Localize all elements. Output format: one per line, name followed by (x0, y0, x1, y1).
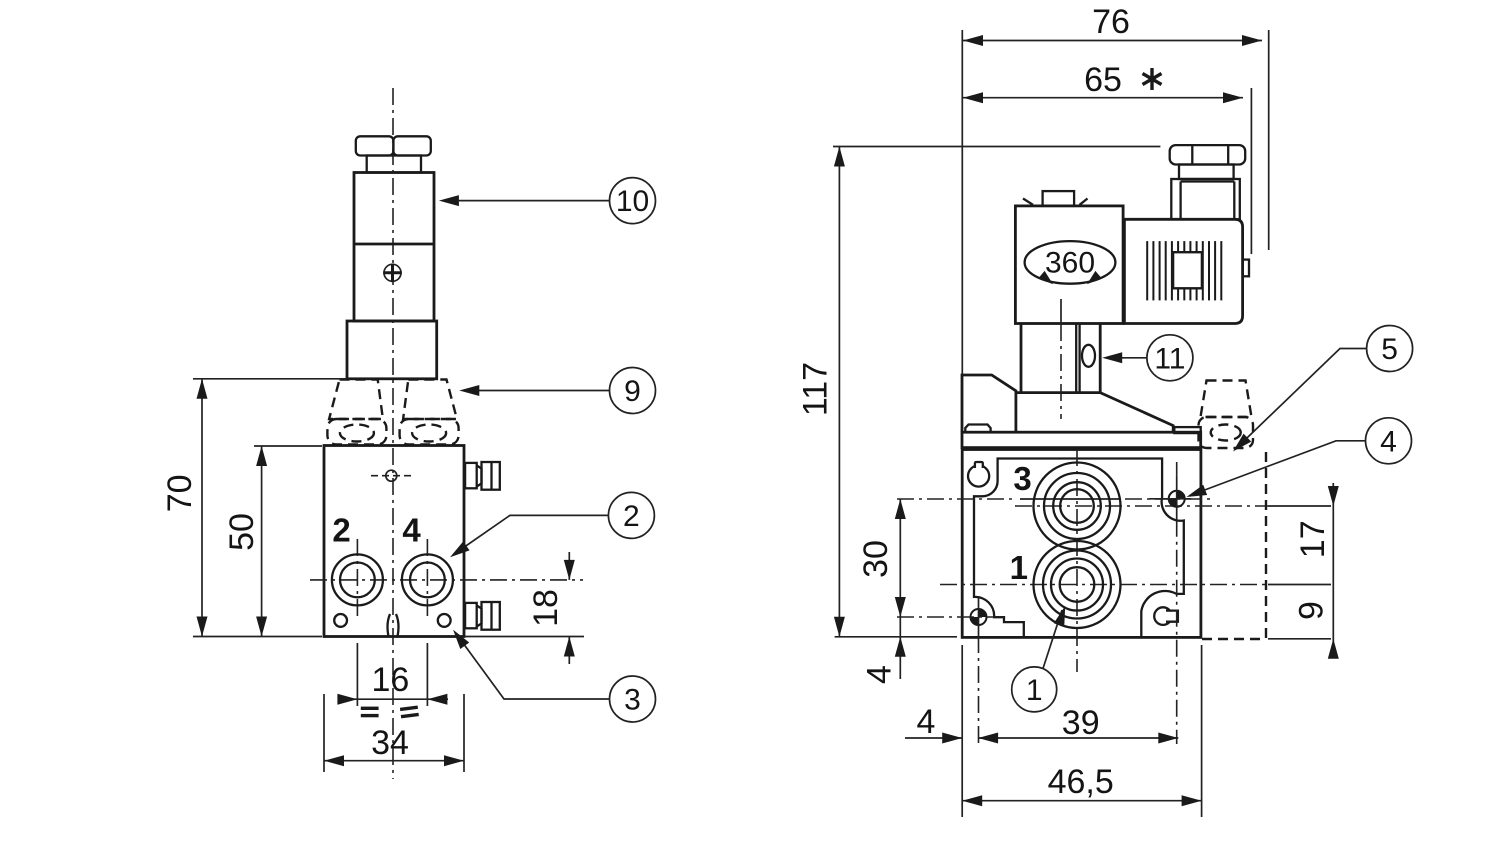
callout 3 (449, 626, 656, 722)
svg-text:11: 11 (1154, 343, 1185, 376)
callout 11 (1102, 335, 1193, 381)
dimension 16 (337, 643, 448, 706)
port 4 (402, 554, 453, 605)
port 1 centerline horizontal (940, 584, 1331, 586)
svg-text:10: 10 (616, 185, 649, 218)
mounting bracket left (962, 375, 1016, 432)
svg-text:46,5: 46,5 (1048, 763, 1114, 801)
solenoid body item 10 (354, 173, 434, 322)
callout 4 (1185, 418, 1412, 502)
svg-text:9: 9 (1293, 601, 1331, 620)
phantom fitting right item 5 (1199, 381, 1267, 640)
svg-text:1: 1 (1026, 674, 1043, 707)
svg-text:4: 4 (1380, 426, 1397, 459)
equal marks (361, 706, 419, 719)
DIN connector body (1124, 219, 1242, 323)
dimension 46,5 (962, 645, 1201, 817)
phantom fitting right item 9 (400, 380, 459, 445)
coil axis centerline (1060, 299, 1062, 324)
dimension 4 vertical (861, 617, 906, 684)
svg-text:76: 76 (1092, 3, 1130, 41)
DIN connector upper flange (1171, 179, 1240, 219)
svg-text:117: 117 (796, 362, 834, 416)
port 2 (332, 554, 383, 605)
DIN connector neck (1179, 165, 1234, 180)
plate tab right (1174, 427, 1200, 433)
pilot connector bottom right (465, 602, 500, 630)
adapter block (347, 321, 437, 379)
mounting hole bottom left (897, 598, 1008, 744)
dimension 30 (857, 499, 906, 617)
body recess contour (974, 459, 1184, 638)
svg-text:50: 50 (223, 513, 261, 551)
svg-text:3: 3 (1013, 460, 1031, 497)
valve body right view (962, 450, 1201, 638)
callout 9 (459, 368, 655, 414)
dimension 76 (962, 3, 1268, 376)
screw on solenoid (383, 264, 402, 283)
svg-text:16: 16 (371, 661, 409, 699)
svg-text:5: 5 (1381, 333, 1398, 366)
svg-text:4: 4 (402, 512, 421, 549)
svg-text:30: 30 (857, 540, 895, 578)
dimension 117 (796, 147, 1160, 637)
port 2 centerline vertical (356, 539, 358, 621)
mounting hole top right item 4 (1150, 462, 1192, 744)
valve body left view (324, 446, 464, 637)
connector window (1173, 252, 1202, 288)
svg-text:65: 65 (1084, 61, 1122, 99)
breather symbol (371, 470, 413, 481)
dimension 50 (223, 446, 322, 637)
coil top button (1023, 191, 1088, 206)
port 3 centerline horizontal (897, 499, 1331, 506)
svg-text:18: 18 (527, 589, 565, 627)
callout 5 (1229, 326, 1412, 456)
port 4 centerline vertical (426, 539, 428, 621)
solenoid coil side view (1015, 206, 1123, 324)
dimension 17 and 9 (1268, 483, 1339, 659)
DIN connector hex nut (1170, 145, 1246, 164)
svg-text:34: 34 (371, 724, 409, 762)
centerline vertical left view (392, 88, 394, 779)
connector side bump (1243, 260, 1249, 277)
svg-text:70: 70 (161, 474, 199, 512)
dimension 34 (324, 694, 464, 772)
callout 1 (1012, 604, 1071, 712)
callout 2 (447, 492, 655, 561)
phantom fitting left item 9 (327, 380, 386, 445)
callout 10 (439, 178, 656, 224)
connector grill (1147, 241, 1221, 300)
stem hole item 11 (1082, 345, 1095, 367)
svg-text:360: 360 (1045, 247, 1095, 280)
mounting hole left (334, 614, 347, 627)
svg-text:4: 4 (861, 665, 899, 684)
port 3 (1034, 463, 1121, 550)
svg-text:2: 2 (623, 500, 640, 533)
keyhole top left (968, 462, 989, 487)
port 1 (1034, 541, 1121, 628)
svg-text:4: 4 (917, 703, 936, 741)
nut neck (367, 156, 421, 173)
svg-text:1: 1 (1010, 549, 1028, 586)
dimension 4 horizontal (905, 703, 962, 744)
svg-text:3: 3 (624, 684, 641, 717)
mounting hole right item 3 (438, 614, 451, 627)
360 rotation symbol (1025, 241, 1116, 288)
svg-text:9: 9 (624, 375, 641, 408)
armature stem (1016, 324, 1100, 393)
C-slot bottom right (1154, 607, 1178, 625)
exhaust slot bottom center (388, 614, 399, 637)
svg-text:39: 39 (1062, 704, 1100, 742)
ports centerline vertical (1076, 449, 1078, 672)
svg-text:2: 2 (332, 512, 350, 549)
dimension 65 with asterisk (963, 61, 1251, 254)
dimension 70 (161, 379, 346, 637)
manual override hex nut (356, 136, 431, 155)
pilot connector top right (465, 462, 500, 490)
cover diagonal (1100, 393, 1173, 433)
port centerline horizontal (310, 579, 583, 581)
dimension 39 (978, 704, 1178, 744)
top plate (962, 432, 1201, 447)
dimension 18 (464, 552, 584, 664)
plate tab left (965, 425, 990, 433)
svg-text:17: 17 (1294, 520, 1332, 558)
